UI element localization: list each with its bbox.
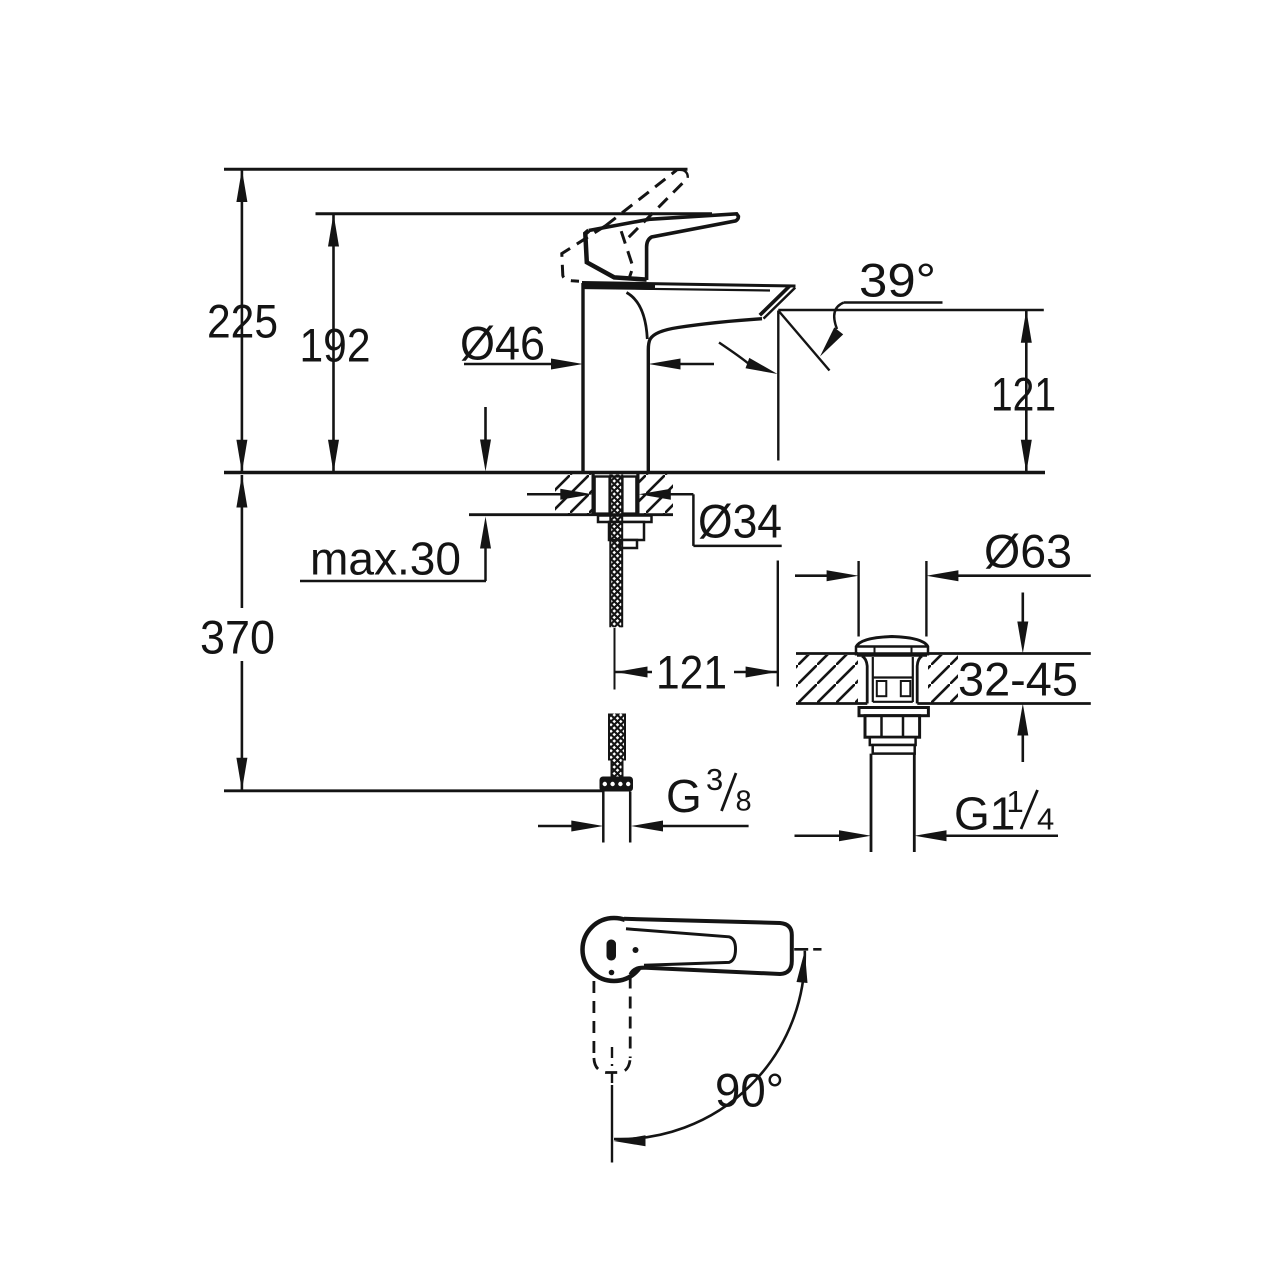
svg-text:Ø34: Ø34 xyxy=(698,495,782,548)
svg-text:8: 8 xyxy=(736,786,752,818)
svg-text:G: G xyxy=(666,770,702,822)
svg-text:225: 225 xyxy=(207,295,278,348)
svg-text:4: 4 xyxy=(1037,802,1054,837)
svg-text:1: 1 xyxy=(1007,784,1024,819)
svg-text:370: 370 xyxy=(200,611,275,664)
svg-text:3: 3 xyxy=(706,762,723,797)
svg-text:32-45: 32-45 xyxy=(958,653,1078,706)
svg-text:192: 192 xyxy=(300,319,371,372)
svg-text:90°: 90° xyxy=(715,1064,784,1117)
svg-text:Ø63: Ø63 xyxy=(984,525,1072,578)
svg-text:39°: 39° xyxy=(859,254,936,307)
svg-text:121: 121 xyxy=(656,646,727,699)
svg-text:max.30: max.30 xyxy=(310,533,461,585)
svg-text:Ø46: Ø46 xyxy=(460,317,545,370)
svg-text:121: 121 xyxy=(991,368,1056,421)
